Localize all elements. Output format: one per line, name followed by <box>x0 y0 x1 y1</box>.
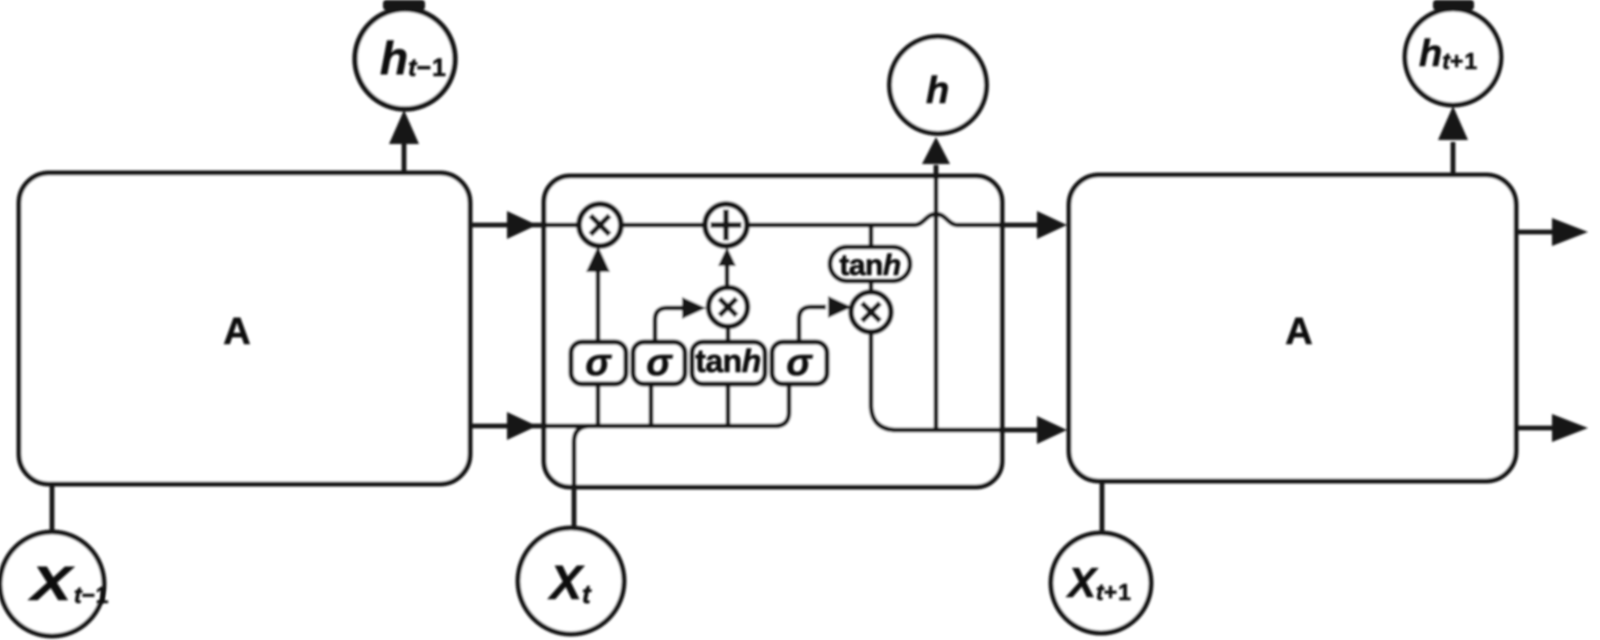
arrowhead into h(t-1) <box>389 110 419 144</box>
svg-text:t−1: t−1 <box>74 582 109 608</box>
arrowhead into add node <box>718 247 736 266</box>
bar atop h(t-1) <box>383 0 425 10</box>
svg-text:σ: σ <box>786 342 813 384</box>
arrowhead bottom input <box>507 412 537 440</box>
node x(t+1) circle <box>1051 533 1151 633</box>
wire: x(t-1) to block A <box>50 484 55 534</box>
svg-text:A: A <box>223 311 250 353</box>
svg-text:h: h <box>926 70 949 112</box>
gate sigma3 (output gate) <box>772 342 827 384</box>
wire: stub sigma1 to hidden line <box>596 384 601 426</box>
op: output multiply <box>851 292 891 332</box>
svg-text:σ: σ <box>646 342 673 384</box>
block A (t-1) <box>19 173 470 484</box>
node h(t+1) circle <box>1405 9 1501 105</box>
gate sigma2 (input gate) <box>633 342 685 384</box>
arrowhead top right output <box>1552 218 1588 246</box>
wire: sigma1 up to forget multiply <box>596 266 601 342</box>
gate sigma1 (forget gate) <box>571 342 626 384</box>
wire: x(t+1) to block A(t+1) <box>1100 481 1105 535</box>
arrowhead bottom right output <box>1552 414 1588 442</box>
op: forget multiply <box>579 204 621 246</box>
node x(t) circle <box>518 528 624 634</box>
block A (t+1) <box>1069 175 1516 481</box>
wire: output hidden line to next block <box>897 428 1040 433</box>
wire: bottom output of block A(t+1) <box>1516 426 1556 431</box>
wire: input multiply up to add node <box>725 264 730 288</box>
wire: block A(t+1) to h(t+1) <box>1451 142 1456 175</box>
svg-text:tanh: tanh <box>839 249 901 282</box>
arrowhead into h(t+1) <box>1438 106 1468 140</box>
wire: sigma2 up and right to input multiply <box>655 308 684 342</box>
wire: top output of block A(t+1) <box>1516 230 1556 235</box>
wire: x(t) rising into hidden line <box>574 426 590 528</box>
LSTM cell box <box>544 176 1002 487</box>
arrowhead into input multiply <box>682 297 706 319</box>
wire: output multiply down to output hidden line <box>871 332 897 430</box>
wire: tanh pill down to output multiply <box>869 281 874 293</box>
wire: stub cell line down to tanh pill <box>869 225 874 246</box>
svg-text:X: X <box>28 557 76 611</box>
wire: cell-state line into cell (top input arrow) <box>470 223 580 228</box>
node x(t-1) circle <box>0 532 104 636</box>
arrowhead hidden line into next block <box>1037 416 1067 444</box>
wire: stub tanh-gate to hidden line <box>726 384 731 426</box>
wire: block A to h(t-1) <box>402 144 407 173</box>
arrowhead top input <box>507 211 537 239</box>
svg-text:σ: σ <box>585 342 612 384</box>
arrowhead cell line into next block <box>1037 211 1067 239</box>
gate tanh (candidate) <box>692 342 765 384</box>
wire: h branch rising to h output <box>934 165 939 430</box>
tanh pill on cell state <box>830 247 910 281</box>
wire: sigma3 up and right to output multiply <box>799 307 826 342</box>
node h(t-1) circle <box>355 9 455 109</box>
arrowhead into h circle <box>922 137 950 164</box>
wire: cell line segment between forget multiply and add <box>621 223 705 228</box>
node h circle <box>890 37 987 134</box>
wire: hidden line into cell (bottom input arrow) <box>470 384 789 426</box>
arrowhead into forget multiply <box>586 246 610 272</box>
op: input multiply <box>709 288 748 327</box>
svg-text:A: A <box>1285 311 1312 353</box>
arrowhead into output multiply <box>828 296 852 318</box>
wire: stub sigma2 to hidden line <box>649 384 654 426</box>
op: add node <box>705 204 747 246</box>
wire: tanh gate stub up to input multiply <box>726 327 731 342</box>
bar atop h(t+1) <box>1433 0 1474 10</box>
svg-text:tanh: tanh <box>695 343 761 379</box>
wire: cell line with hop over h branch, out to next block <box>747 214 1040 225</box>
